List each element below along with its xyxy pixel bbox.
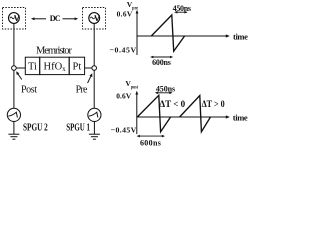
axis V_post vertical (136, 93, 138, 135)
source symbol sine left (10, 17, 14, 19)
wire left vertical (13, 23, 15, 108)
arrow Pre-to-node (88, 76, 91, 83)
dim arrow 600ns bottom (137, 135, 165, 138)
waveform V_pre pulse (151, 15, 184, 51)
memristor Pt box (69, 57, 84, 74)
svg-text:−0.45V: −0.45V (110, 46, 137, 55)
node Pre circle (92, 66, 97, 71)
svg-text:ΔT < 0: ΔT < 0 (159, 99, 185, 110)
svg-text:Pt: Pt (73, 62, 82, 73)
axis V_pre vertical (136, 12, 138, 56)
memristor Ti box (25, 57, 39, 74)
source symbol sine right (90, 17, 94, 19)
arrowhead V_pre axis (136, 10, 139, 14)
wire node-to-memristor left (16, 67, 25, 69)
ground left bars (8, 133, 19, 135)
svg-text:SPGU 2: SPGU 2 (23, 123, 48, 134)
arrow DC-to-left (34, 18, 47, 20)
dim arrow 600ns top (150, 56, 173, 59)
svg-text:Pre: Pre (76, 85, 88, 96)
svg-text:Ti: Ti (28, 62, 37, 73)
svg-text:time: time (233, 31, 248, 41)
source symbol V right (94, 16, 100, 21)
arrowhead V_post axis (135, 91, 138, 95)
svg-text:time: time (233, 112, 248, 122)
wire memristor-to-node right (85, 67, 92, 69)
dim arrow 450ns bottom (155, 92, 173, 95)
svg-text:ΔT > 0: ΔT > 0 (202, 99, 225, 110)
ground right stub (93, 122, 95, 135)
svg-text:SPGU 1: SPGU 1 (66, 123, 90, 134)
svg-text:Post: Post (21, 85, 37, 96)
svg-text:Memristor: Memristor (36, 45, 73, 56)
ground left stub (13, 122, 15, 135)
waveform V_post pulse 1 (137, 95, 170, 132)
svg-text:0.6V: 0.6V (116, 92, 132, 101)
arrowhead time top axis (226, 34, 230, 37)
dashed box left (3, 8, 26, 30)
ground right bars (89, 133, 100, 135)
source V1 circle left (9, 13, 20, 24)
arrow Post-to-node (18, 74, 22, 80)
svg-text:450ns: 450ns (156, 84, 175, 93)
DC arrows (16, 17, 92, 83)
memristor HfOx box (40, 57, 69, 74)
axis time top horizontal (137, 35, 228, 37)
source V2 circle right (89, 13, 100, 24)
waveform V_post pulse 2 (180, 96, 211, 132)
svg-text:600ns: 600ns (152, 58, 171, 67)
SPGU 1 pulse symbol (89, 112, 98, 117)
node Post circle (12, 66, 17, 71)
axis time bottom horizontal (137, 116, 229, 118)
svg-text:−0.45V: −0.45V (111, 125, 137, 134)
SPGU 2 circle (7, 108, 20, 121)
SPGU 1 circle (88, 108, 101, 121)
source symbol V left (14, 16, 20, 21)
wire right vertical (93, 23, 95, 108)
svg-text:600ns: 600ns (140, 139, 161, 147)
dashed box right (83, 8, 106, 30)
svg-text:DC: DC (50, 14, 61, 23)
arrow DC-to-right (63, 18, 76, 20)
arrowhead time bottom axis (226, 115, 230, 118)
svg-text:0.6V: 0.6V (117, 10, 133, 19)
SPGU 2 pulse symbol (8, 112, 17, 117)
svg-text:450ns: 450ns (173, 4, 191, 13)
dim arrow 450ns top (174, 11, 187, 14)
